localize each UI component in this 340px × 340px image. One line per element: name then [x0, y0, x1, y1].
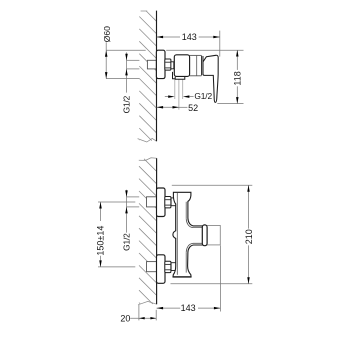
- svg-text:20: 20: [120, 313, 130, 323]
- svg-text:210: 210: [244, 229, 254, 244]
- svg-text:G1/2: G1/2: [194, 91, 212, 101]
- svg-text:118: 118: [232, 71, 242, 85]
- svg-text:143: 143: [181, 303, 196, 313]
- svg-text:Ø60: Ø60: [102, 26, 112, 42]
- svg-text:G1/2: G1/2: [121, 233, 131, 251]
- svg-text:G1/2: G1/2: [122, 95, 132, 113]
- svg-text:150±14: 150±14: [96, 226, 106, 256]
- svg-text:143: 143: [182, 32, 197, 42]
- svg-text:52: 52: [188, 103, 198, 113]
